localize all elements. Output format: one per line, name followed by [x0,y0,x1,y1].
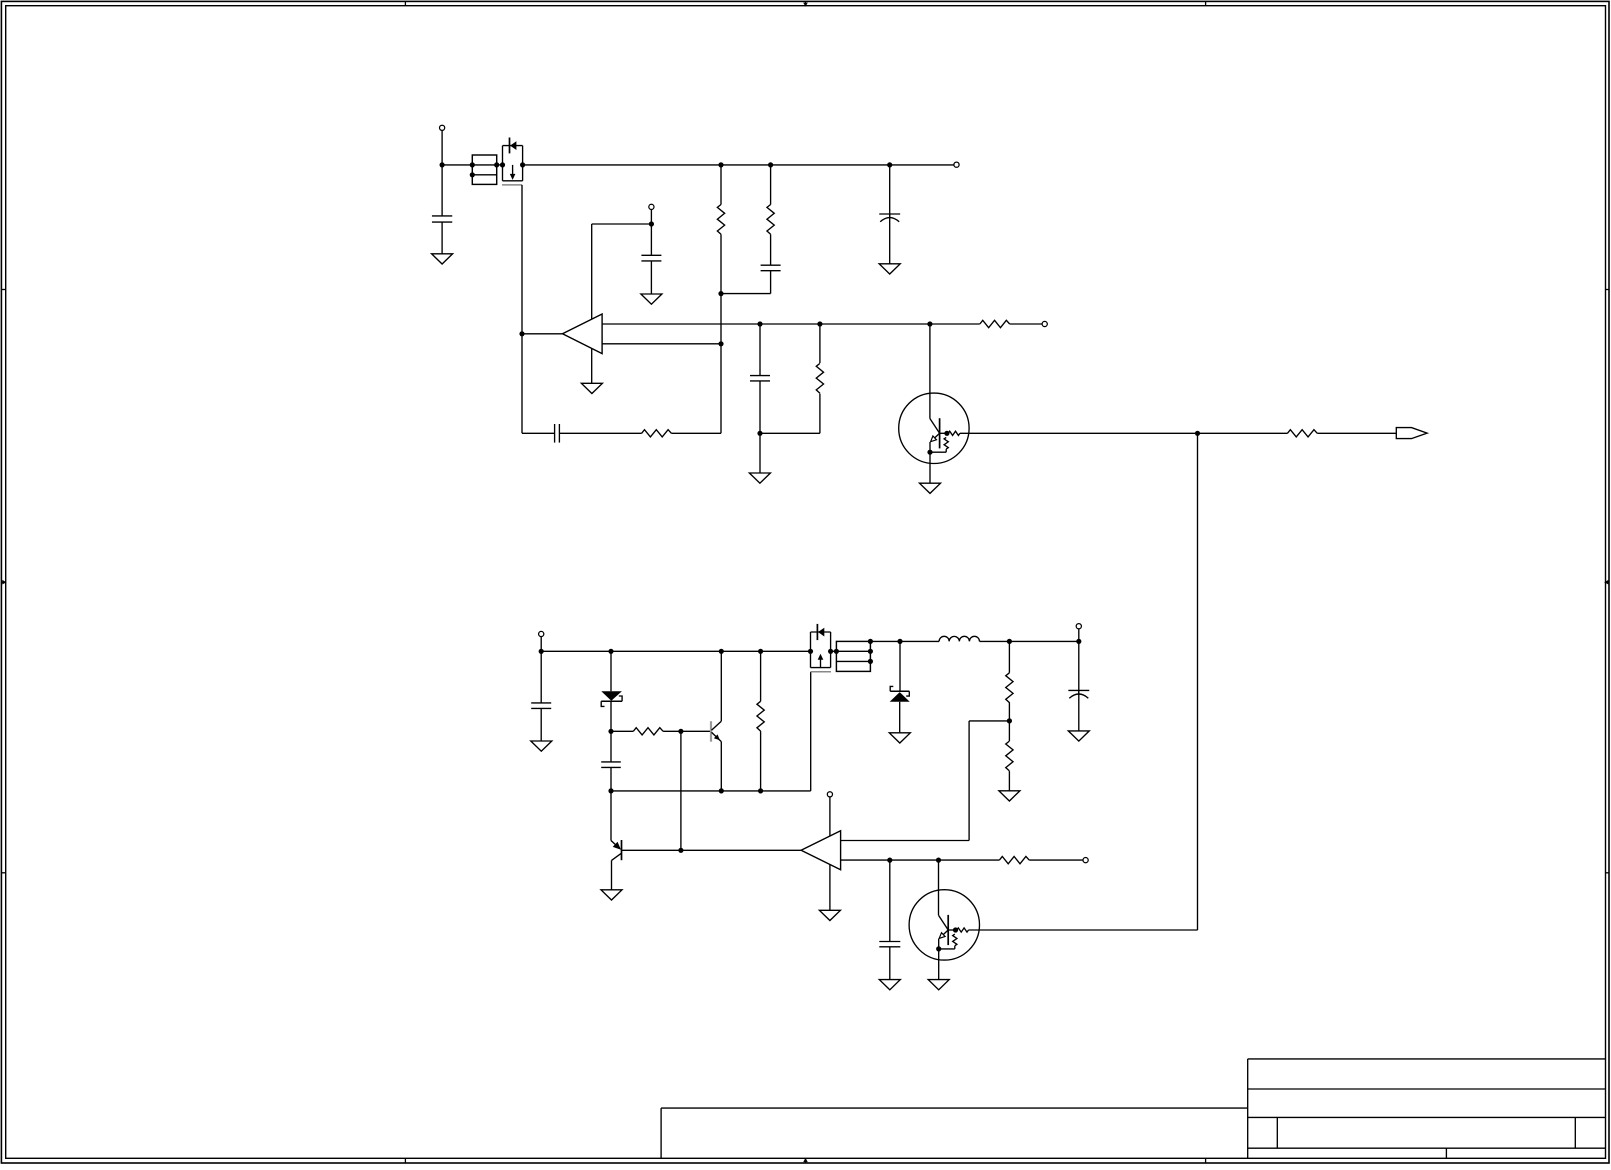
wire [721,293,771,295]
wire (Q6 collector) [939,860,949,930]
terminal T1 (input) [440,125,445,130]
wire [889,214,891,264]
capacitor C5 [555,424,560,443]
junction [1076,639,1081,644]
junction [868,639,873,644]
wire [760,432,820,434]
junction [944,431,949,436]
ground [819,910,840,920]
wire (Q2 collector) [930,324,940,433]
ground [749,473,770,483]
capacitor C10 (polarized) [1068,690,1089,698]
wire (switch node) [870,640,939,642]
wire [760,651,762,701]
resistor R4 [816,363,823,393]
wire [770,234,772,265]
wire [441,130,443,165]
wire [441,222,443,254]
junction [678,848,683,853]
wire [759,381,761,433]
junction [758,649,763,654]
wire [1198,432,1288,434]
wire (U1 output) [522,333,563,335]
node B [718,291,723,296]
junction [1007,639,1012,644]
wire [1008,721,1010,741]
junction [828,649,833,654]
zener diode D1 [601,691,622,706]
wire [938,939,940,949]
terminal T4 (input 2) [539,631,544,636]
wire (Q4 collector) [720,651,722,721]
ground [432,254,453,264]
schottky diode D2 [890,686,910,701]
capacitor C4 [641,255,661,261]
wire [720,294,722,344]
wire [720,165,722,205]
capacitor C3 (polarized) [879,214,900,222]
Q6 emitter [939,930,948,938]
capacitor C1 [432,216,452,222]
wire [831,650,837,652]
capacitor C7 [531,703,551,709]
resistor R3 [642,430,672,437]
resistor R5 (Q2 base) [948,431,960,435]
resistor R15 [980,320,1010,327]
wire (gate node line) [611,790,811,792]
wire [610,731,612,762]
wire (Q4 emitter) [720,742,722,791]
junction [897,639,902,644]
wire [1010,323,1043,325]
wire [770,165,772,205]
Q2 emitter [931,433,940,441]
resistor R14 (Q6 base-emitter) [939,934,957,949]
junction [953,927,958,932]
junction [719,788,724,793]
wire [559,432,641,434]
terminal T3 (U1 supply) [649,204,654,209]
node D (rail 2) [539,649,544,654]
wire [760,731,762,791]
wire (Q1 stage to Q6 stage link) [1197,433,1199,930]
junction [817,321,822,326]
wire [540,636,542,651]
wire [1008,702,1010,721]
junction [470,172,475,177]
resistor R13 (Q6 base) [957,928,969,932]
junction [494,162,499,167]
junction [757,321,762,326]
wire [759,433,761,473]
fuse F2 (box symbol) [836,641,870,671]
ground [531,741,552,751]
wire [930,323,980,325]
terminal T9 [1042,321,1047,326]
resistor R11 [1006,741,1013,771]
wire (feedback to U2) [841,721,1010,841]
resistor R12 [999,856,1029,863]
wire [938,949,940,980]
junction [718,341,723,346]
resistor R6 (Q2 base-emitter) [930,437,948,452]
junction [520,162,525,167]
wire [1317,432,1396,434]
junction [868,649,873,654]
ground [581,383,602,393]
capacitor C2 [761,265,781,271]
ground [999,791,1020,801]
resistor R1 [717,205,724,235]
junction [768,162,773,167]
ground [928,980,949,990]
wire [819,324,821,363]
transistor Q6 (digital NPN, circled) [909,890,979,960]
junction [758,788,763,793]
wire [899,641,901,691]
wire [650,261,652,294]
wire [610,651,612,691]
junction [936,858,941,863]
wire (U1 V+ pin) [592,224,652,319]
resistor R9 [757,701,764,731]
wire [671,432,721,434]
wire [889,947,891,980]
terminal T2 [954,162,959,167]
wire [929,442,931,452]
wire (Q2 base line to output node) [960,432,1198,434]
ground [920,483,941,493]
junction [608,788,613,793]
ground [879,980,900,990]
terminal T7 (output 2) [1076,624,1081,629]
Q2 base bar [939,418,941,448]
wire (VIN rail) [523,164,955,166]
node C [1195,431,1200,436]
terminal T5 (U2 supply) [827,792,832,797]
wire [650,224,652,255]
wire [889,165,891,218]
wire [1008,771,1010,791]
wire (Q7 collector) [611,860,613,889]
wire [650,209,652,224]
wire [540,651,542,703]
wire [1078,629,1080,642]
transistor Q4 (NPN) [711,721,721,742]
transistor Q2 (digital NPN, circled) [899,393,969,463]
wire (U1 V- pin) [591,348,593,383]
wire (rail 2) [541,650,810,652]
ground [641,294,662,304]
node E (feedback tap) [1007,718,1012,723]
Q6 base bar [947,915,949,945]
transistor Q5 (P-MOSFET with body diode) [811,624,832,672]
junction [718,162,723,167]
junction [757,431,762,436]
terminal T8 (signal flag) [1396,428,1427,439]
junction [608,729,613,734]
transistor Q1 (P-MOSFET with body diode) [502,138,523,185]
junction [719,649,724,654]
wire [889,860,891,941]
wire [770,271,772,294]
wire [611,730,633,732]
wire [948,929,955,931]
junction [678,729,683,734]
resistor R8 [633,728,663,735]
capacitor C8 [601,762,621,768]
resistor R2 [767,205,774,235]
junction [927,321,932,326]
wire (Q7 emitter) [610,791,612,841]
wire [441,165,443,216]
wire (U2 inverting input) [841,859,1000,861]
wire [442,164,472,166]
ground [889,733,910,743]
junction [649,221,654,226]
junction [887,162,892,167]
resistor R7 [1287,430,1317,437]
junction [834,649,839,654]
wire [819,394,821,434]
wire [720,234,722,293]
junction [887,858,892,863]
wire [759,324,761,376]
junction [808,649,813,654]
wire (U2 output to Q7 base) [622,849,802,851]
op-amp U1 [563,314,603,354]
wire [497,164,503,166]
wire [663,730,711,732]
wire [929,452,931,483]
wire (U1 non-inverting input, sense line) [602,323,930,325]
terminal T6 [1083,858,1088,863]
inductor L1 [939,636,979,641]
wire [720,344,722,434]
ground [1068,731,1089,741]
node A (input rail) [440,162,445,167]
wire [610,701,612,731]
capacitor C9 [879,942,900,947]
wire [540,708,542,741]
junction [868,659,873,664]
junction [927,450,932,455]
junction [519,331,524,336]
junction [936,946,941,951]
wire (Q5 gate run) [810,672,812,791]
wire [680,731,682,850]
wire (U2 V- pin) [829,865,831,911]
wire [899,702,901,733]
ground [879,264,900,274]
wire (U1 inverting input) [602,343,721,345]
fuse F1 (box symbol) [472,155,496,184]
wire [1029,859,1083,861]
wire [980,640,1077,642]
wire [1078,641,1080,694]
wire (U2 V+ pin) [829,797,831,837]
op-amp U2 [801,831,841,870]
junction [608,649,613,654]
capacitor C6 [750,376,770,381]
wire [1078,690,1080,731]
transistor Q7 (PNP) [611,840,622,860]
wire [940,432,947,434]
wire [610,767,612,791]
wire [522,432,555,434]
resistor R10 [1006,673,1013,703]
junction [470,162,475,167]
junction [500,162,505,167]
ground [601,890,622,900]
wire [1008,641,1010,672]
wire (gate of Q1 down to U1 output and feedback) [521,185,523,433]
wire (Q6 base line) [969,929,1198,931]
